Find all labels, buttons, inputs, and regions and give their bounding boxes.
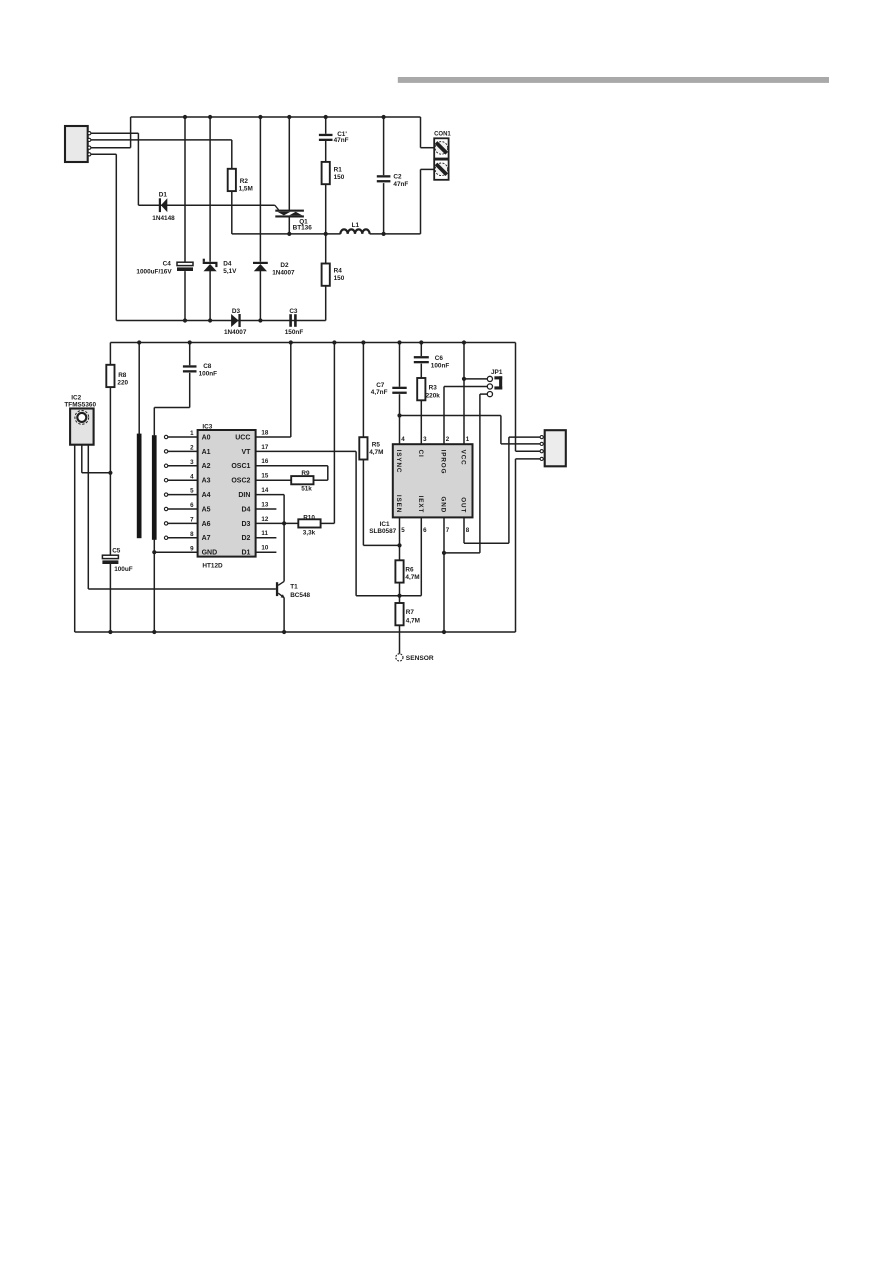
svg-text:10: 10	[261, 545, 268, 552]
wire ISEN pin 5 stub	[399, 517, 401, 545]
svg-text:6: 6	[423, 527, 427, 534]
wire R5 bottom lead	[362, 460, 364, 546]
junction top rail	[382, 115, 386, 119]
svg-text:7: 7	[190, 517, 194, 524]
svg-text:BT136: BT136	[293, 224, 313, 231]
node SENSOR	[396, 654, 403, 661]
bus bar 1	[137, 434, 142, 539]
svg-text:2: 2	[446, 436, 450, 443]
wire C8 top lead	[189, 343, 191, 366]
svg-text:C8: C8	[203, 363, 212, 370]
wire top supply rail (lower circuit)	[110, 342, 515, 344]
svg-text:VT: VT	[241, 449, 251, 456]
svg-text:150nF: 150nF	[285, 329, 304, 336]
junction top rail	[258, 115, 262, 119]
IC3 HT12D decoder	[198, 430, 256, 557]
wire R5 to ISEN node	[363, 544, 399, 546]
junction bottom rail	[208, 318, 212, 322]
wire C5 to ground	[109, 564, 111, 632]
wire C8 jog to bus bar 2	[153, 408, 155, 436]
diode D1 1N4148 (points left)	[161, 198, 167, 212]
wire ISYNC node to connector	[400, 415, 501, 417]
svg-text:100nF: 100nF	[431, 362, 450, 369]
junction mid rail	[324, 232, 328, 236]
svg-text:R8: R8	[118, 372, 127, 379]
wire connector pin 4	[516, 458, 541, 460]
zener diode D4 5,1V	[203, 262, 218, 264]
resistor R8	[106, 365, 114, 387]
svg-text:100uF: 100uF	[114, 566, 133, 573]
junction ground rail	[282, 630, 286, 634]
wire C6 top lead	[420, 343, 422, 357]
svg-text:220: 220	[117, 380, 128, 387]
wire pin3 to top rail	[91, 147, 131, 149]
stub NC pin	[256, 551, 277, 553]
resistor R10 3,3k	[298, 519, 320, 527]
svg-text:5,1V: 5,1V	[223, 268, 237, 275]
svg-text:18: 18	[261, 429, 268, 436]
wire OUT pin 8 stub	[463, 517, 465, 543]
wire R9 right lead	[314, 479, 328, 481]
junction ground rail	[152, 630, 156, 634]
wire UCC pin 18	[256, 436, 291, 438]
capacitor C2 47nF	[377, 175, 391, 177]
wire C4 column lower	[184, 271, 186, 320]
junction top rail 2	[397, 340, 401, 344]
svg-text:4: 4	[401, 436, 405, 443]
wire to connector pin 2	[501, 443, 540, 445]
svg-text:8: 8	[190, 531, 194, 538]
wire left vertical down to bottom rail	[115, 154, 117, 320]
svg-text:A3: A3	[202, 478, 211, 485]
wire mid rail right of L1	[370, 233, 421, 235]
wire IEXT node	[356, 595, 421, 597]
svg-text:5: 5	[401, 527, 405, 534]
wire JP1 pin3 to GND column	[444, 552, 480, 554]
junction R6/R7/IEXT	[397, 594, 401, 598]
resistor R4	[322, 264, 330, 286]
IC3 pin 4 (A3)	[164, 479, 167, 482]
svg-text:IPROG: IPROG	[440, 450, 447, 475]
svg-text:14: 14	[261, 487, 268, 494]
svg-text:A2: A2	[202, 463, 211, 470]
junction bottom rail	[258, 318, 262, 322]
junction R5/ISEN/R6	[397, 543, 401, 547]
svg-text:A6: A6	[202, 521, 211, 528]
svg-text:6: 6	[190, 502, 194, 509]
wire R6 bottom lead	[399, 583, 401, 596]
svg-text:1N4007: 1N4007	[224, 329, 247, 336]
svg-text:UCC: UCC	[235, 434, 250, 441]
wire IEXT pin 6 stub	[420, 517, 422, 595]
wire C7 top lead	[399, 343, 401, 387]
svg-text:R3: R3	[429, 385, 438, 392]
IC1 SLB0587 dimmer IC	[393, 444, 473, 517]
wire rail down to connector pin 3	[515, 343, 517, 452]
svg-text:A4: A4	[202, 492, 211, 499]
wire R5 top lead	[362, 343, 364, 438]
wire connector pin 1	[509, 436, 540, 438]
svg-text:1000uF/16V: 1000uF/16V	[136, 269, 172, 276]
IC3 pin 5 (A4)	[164, 493, 167, 496]
svg-text:5: 5	[190, 488, 194, 495]
svg-text:ISEN: ISEN	[395, 495, 402, 513]
wire gate diagonal into Q1	[275, 205, 279, 210]
wire to JP1 pin 1	[464, 378, 487, 380]
wire C1 top lead	[325, 117, 327, 134]
wire pin1 down	[508, 437, 510, 543]
svg-text:4,7nF: 4,7nF	[371, 389, 388, 396]
svg-text:150: 150	[334, 174, 345, 181]
junction GND bus	[152, 550, 156, 554]
resistor R6	[395, 560, 403, 582]
wire top rail	[131, 116, 421, 118]
capacitor C7 4,7nF	[392, 387, 406, 389]
wire mid rail (MT1/L1 net)	[232, 233, 341, 235]
svg-text:OUT: OUT	[460, 497, 467, 513]
svg-text:OSC2: OSC2	[231, 478, 250, 485]
wire OSC1-R9 link	[327, 466, 329, 480]
resistor R3	[417, 378, 425, 400]
svg-text:IC3: IC3	[202, 423, 212, 430]
wire C1-R1 link	[325, 139, 327, 162]
svg-text:R6: R6	[405, 567, 414, 574]
wire D1 gate line	[138, 204, 274, 206]
svg-text:15: 15	[261, 473, 268, 480]
svg-text:1,5M: 1,5M	[239, 186, 253, 193]
capacitor C3 150nF	[289, 314, 292, 327]
IC3 pin 3 (A2)	[164, 464, 167, 467]
wire GND pin 7 to ground rail	[443, 517, 445, 632]
resistor R5	[359, 437, 367, 459]
svg-text:HT12D: HT12D	[202, 562, 223, 569]
svg-text:CON1: CON1	[434, 131, 451, 137]
wire connector pin 3	[516, 450, 541, 452]
resistor R9 51k	[291, 476, 313, 484]
wire JP1 pin 2	[444, 386, 487, 388]
IC2 TFMS5360 IR receiver	[70, 409, 94, 445]
svg-text:D2: D2	[241, 535, 250, 542]
wire R4 top lead	[325, 234, 327, 264]
junction top rail 2	[289, 340, 293, 344]
svg-text:D2: D2	[280, 262, 289, 269]
svg-text:SLB0587: SLB0587	[369, 528, 396, 535]
junction top rail 2	[332, 340, 336, 344]
svg-text:GND: GND	[440, 496, 447, 513]
wire C6 to R3	[420, 364, 422, 378]
svg-text:4,7M: 4,7M	[405, 574, 419, 581]
svg-text:47nF: 47nF	[334, 137, 349, 144]
wire CON1 lower drop	[420, 169, 422, 234]
junction top rail 2	[419, 340, 423, 344]
svg-text:51k: 51k	[301, 485, 312, 492]
svg-text:9: 9	[190, 545, 194, 552]
svg-text:13: 13	[261, 501, 268, 508]
wire OSC1 pin 16	[256, 465, 328, 467]
junction top rail 2	[188, 340, 192, 344]
diode D3 1N4007 (points right)	[231, 314, 239, 327]
wire IC2 pin2 to R8/C5 node	[82, 472, 111, 474]
wire Q1 MT2 column	[288, 117, 290, 210]
svg-text:C2: C2	[393, 174, 402, 181]
svg-text:12: 12	[261, 516, 268, 523]
wire R2 bottom lead	[231, 191, 233, 234]
svg-text:VCC: VCC	[460, 450, 467, 466]
svg-text:SENSOR: SENSOR	[406, 655, 434, 662]
svg-text:A0: A0	[202, 434, 211, 441]
IC3 pin 8 (A7)	[164, 536, 167, 539]
wire pin2 to R2 top	[91, 139, 232, 141]
inductor L1	[340, 229, 369, 234]
svg-text:TFMS5360: TFMS5360	[64, 402, 96, 409]
svg-text:D1: D1	[159, 191, 168, 198]
wire down to D1 anode	[137, 133, 139, 205]
wire R6 top lead	[399, 545, 401, 560]
svg-text:220k: 220k	[426, 392, 441, 399]
svg-text:4,7M: 4,7M	[406, 618, 420, 625]
svg-text:A5: A5	[202, 506, 211, 513]
diode D2 1N4007	[253, 262, 268, 264]
svg-text:2: 2	[190, 445, 194, 452]
capacitor C6 100nF	[414, 356, 429, 358]
wire C2 bottom lead	[383, 183, 385, 234]
wire down to IPROG pin 2	[443, 387, 445, 445]
wire IC2 pin1 to ground	[74, 445, 76, 632]
IC3 pin 6 (A5)	[164, 507, 167, 510]
junction bottom rail	[183, 318, 187, 322]
junction ground rail	[108, 630, 112, 634]
junction top rail	[287, 115, 291, 119]
svg-text:D1: D1	[241, 550, 250, 557]
wire C8 jog left	[154, 407, 189, 409]
svg-text:R1: R1	[334, 167, 343, 174]
wire Q1 MT1 lead	[288, 217, 290, 234]
junction DIN/D3/R10	[282, 521, 286, 525]
svg-text:T1: T1	[290, 584, 298, 591]
resistor R2	[228, 169, 236, 191]
wire VT down	[355, 451, 357, 595]
svg-text:8: 8	[466, 527, 470, 534]
svg-text:DIN: DIN	[238, 492, 250, 499]
svg-text:R2: R2	[240, 178, 249, 185]
wire C2 top lead	[383, 117, 385, 175]
svg-text:JP1: JP1	[491, 369, 503, 376]
wire T1 emitter to ground	[283, 598, 285, 632]
wire R7 top lead	[399, 596, 401, 603]
svg-text:C4: C4	[163, 260, 172, 267]
wire pin4 to left drop	[91, 153, 116, 155]
wire pin1 to D1 branch	[91, 132, 138, 134]
wire down	[500, 416, 502, 444]
junction top rail 2	[361, 340, 365, 344]
junction JP1/GND pin7	[442, 551, 446, 555]
wire IC2 pin3 down	[87, 445, 89, 589]
wire C4 column upper	[184, 117, 186, 262]
wire D2 column lower	[259, 271, 261, 321]
wire D4 column upper	[209, 117, 211, 262]
wire IC2 out to T1 base	[88, 588, 276, 590]
wire pin4 down to ground rail	[515, 459, 517, 632]
junction top rail 2	[137, 340, 141, 344]
junction ground rail	[442, 630, 446, 634]
capacitor C1 47nF	[319, 134, 333, 136]
wire R2 top lead	[231, 140, 233, 169]
svg-text:11: 11	[261, 530, 268, 537]
svg-text:IEXT: IEXT	[417, 496, 424, 514]
wire bus bar 2 / GND column	[153, 435, 155, 632]
svg-text:C6: C6	[435, 355, 444, 362]
svg-text:C5: C5	[112, 548, 121, 555]
svg-text:C7: C7	[376, 382, 385, 389]
IC3 pin 7 (A6)	[164, 522, 167, 525]
wire UCC up to rail	[290, 343, 292, 438]
wire up to top rail	[130, 117, 132, 148]
svg-text:ISYNC: ISYNC	[395, 450, 402, 474]
wire to bus bar 1	[138, 343, 140, 435]
wire R7 to sensor pad	[399, 625, 401, 654]
svg-text:D3: D3	[241, 521, 250, 528]
svg-text:R5: R5	[372, 442, 381, 449]
wire R8 top lead	[109, 343, 111, 365]
wire C7 to ISYNC pin 4	[399, 394, 401, 444]
wire DIN pin 14	[256, 494, 285, 496]
svg-text:7: 7	[446, 527, 450, 534]
wire pin1 to OUT pin 8	[464, 542, 509, 544]
connector X1 (4-pin plug, top left)	[65, 126, 88, 162]
capacitor C5 100uF	[102, 555, 118, 558]
junction mid rail	[382, 232, 386, 236]
svg-text:CI: CI	[417, 450, 424, 458]
bus bar 2	[152, 435, 157, 540]
svg-text:3,3k: 3,3k	[303, 529, 316, 536]
wire IC3 GND pin to bus	[154, 551, 197, 553]
svg-text:D3: D3	[232, 308, 241, 315]
triac Q1 BT136	[275, 210, 304, 212]
jumper JP1	[487, 376, 492, 381]
svg-text:47nF: 47nF	[393, 181, 408, 188]
wire R10 right lead	[321, 522, 335, 524]
svg-text:R7: R7	[406, 609, 415, 616]
wire R1 bottom lead	[325, 184, 327, 234]
resistor R1	[322, 162, 330, 184]
svg-text:150: 150	[334, 275, 345, 282]
svg-text:R9: R9	[301, 470, 310, 477]
wire CON1 upper drop	[420, 117, 422, 148]
resistor R7	[395, 603, 403, 625]
svg-text:1: 1	[466, 436, 470, 443]
svg-text:3: 3	[423, 436, 427, 443]
svg-text:C3: C3	[289, 308, 298, 315]
stub NC pin	[256, 508, 277, 510]
svg-text:3: 3	[190, 459, 194, 466]
wire IC2 pin2 down	[81, 445, 83, 473]
wire JP1 pin 3	[480, 393, 487, 395]
wire VCC pin1 column	[463, 343, 465, 445]
svg-text:A1: A1	[202, 449, 211, 456]
wire D4 column lower	[209, 271, 211, 321]
svg-text:D4: D4	[223, 260, 232, 267]
wire OSC2 pin 15	[256, 479, 292, 481]
wire bottom rail	[116, 320, 325, 322]
svg-text:4,7M: 4,7M	[369, 449, 383, 456]
junction IC2/R8	[108, 471, 112, 475]
wire R10 up to rail	[333, 343, 335, 524]
capacitor C8 100nF	[183, 365, 197, 367]
svg-text:R10: R10	[303, 514, 315, 521]
header rule bar	[398, 77, 829, 83]
junction top rail	[183, 115, 187, 119]
wire to CON1 terminal 1	[421, 147, 435, 149]
wire D3 pin 12	[256, 522, 299, 524]
svg-text:17: 17	[261, 444, 268, 451]
wire R4 bottom lead	[325, 286, 327, 321]
wire R3 to CI pin 3	[420, 400, 422, 444]
junction top rail	[324, 115, 328, 119]
svg-text:1N4007: 1N4007	[272, 270, 295, 277]
wire JP1 pin3 down	[479, 394, 481, 553]
wire C8 bottom lead	[189, 373, 191, 408]
connector CON1 (screw terminal)	[434, 138, 448, 158]
svg-text:GND: GND	[202, 550, 218, 557]
IC3 pin 2 (A1)	[164, 450, 167, 453]
svg-text:1N4148: 1N4148	[152, 215, 175, 222]
junction mid rail	[287, 232, 291, 236]
svg-text:16: 16	[261, 458, 268, 465]
wire R8 to C5	[109, 387, 111, 555]
svg-text:R4: R4	[334, 268, 343, 275]
svg-text:1: 1	[190, 430, 194, 437]
wire VT pin 17	[256, 450, 357, 452]
svg-text:D4: D4	[241, 506, 250, 513]
transistor T1 BC548	[276, 582, 278, 596]
junction C7/ISYNC	[397, 413, 401, 417]
junction top rail 2	[462, 340, 466, 344]
IC3 pin 1 (A0)	[164, 435, 167, 438]
svg-text:OSC1: OSC1	[231, 463, 250, 470]
svg-text:100nF: 100nF	[199, 371, 218, 378]
wire to CON1 terminal 2	[421, 168, 435, 170]
svg-text:BC548: BC548	[290, 592, 310, 599]
stub NC pin	[256, 537, 277, 539]
junction top rail	[208, 115, 212, 119]
capacitor C4 1000uF/16V	[177, 262, 193, 265]
connector X2 (4-pin, right)	[545, 430, 566, 466]
svg-text:L1: L1	[352, 222, 360, 229]
junction VCC/JP1	[462, 377, 466, 381]
svg-text:4: 4	[190, 473, 194, 480]
wire DIN down to T1 collector	[283, 495, 285, 582]
wire ground rail (lower circuit)	[75, 631, 516, 633]
wire D2 column upper	[259, 117, 261, 262]
svg-text:A7: A7	[202, 535, 211, 542]
